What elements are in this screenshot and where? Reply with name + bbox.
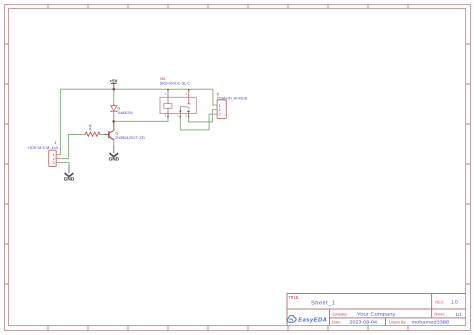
svg-text:3: 3 xyxy=(53,161,55,165)
J1 pin numbers 1 2 3 xyxy=(53,153,55,165)
svg-text:1N4007W: 1N4007W xyxy=(117,111,133,115)
wire J1 pin3 to ground xyxy=(60,163,69,167)
svg-text:Q1: Q1 xyxy=(115,131,118,135)
P1 pin numbers 1 2 3 xyxy=(219,104,221,117)
wire relay NO to P1 pin2 xyxy=(189,110,214,122)
svg-text:J1: J1 xyxy=(54,141,56,145)
svg-text:GND: GND xyxy=(109,157,120,162)
svg-text:REV:: REV: xyxy=(435,299,444,304)
svg-text:2: 2 xyxy=(219,108,221,112)
svg-text:1.0: 1.0 xyxy=(451,300,458,306)
wire +5V rail horizontal xyxy=(60,88,213,90)
frame zone ticks right xyxy=(466,44,471,284)
svg-text:Date:: Date: xyxy=(332,320,341,325)
svg-text:HDR-M-E.M_1x3: HDR-M-E.M_1x3 xyxy=(28,146,58,150)
EasyEDA logo xyxy=(287,315,327,323)
svg-text:Sheet_1: Sheet_1 xyxy=(311,300,335,307)
wire resistor to Q1 base xyxy=(100,134,104,136)
wire rail down to J1 pin1 xyxy=(59,89,62,154)
relay common pin xyxy=(179,107,181,117)
diode D1 1N4007W xyxy=(111,103,117,122)
svg-text:mohamed3388: mohamed3388 xyxy=(412,320,450,325)
relay coil box xyxy=(164,104,172,109)
wire +5V to diode top xyxy=(113,89,115,102)
ground symbol GND (under Q1) xyxy=(109,146,120,162)
svg-text:GND: GND xyxy=(64,177,75,182)
relay coil pin 1 (top) xyxy=(167,89,169,103)
svg-text:SRD-05VDC-SL-C: SRD-05VDC-SL-C xyxy=(160,81,191,85)
connector P1 CONN-TH_3P-P5.00 xyxy=(214,100,227,119)
junction at diode bottom / collector / coil wire xyxy=(113,120,116,123)
ground symbol GND (left, J1 pin3) xyxy=(64,166,75,182)
wire relay common to P1 pin3 xyxy=(180,114,213,130)
svg-text:1k: 1k xyxy=(89,127,92,131)
relay armature xyxy=(180,107,189,109)
wire J1 pin2 to resistor xyxy=(60,135,84,159)
relay coil pin 2 (bottom) xyxy=(167,108,169,117)
frame zone ticks top xyxy=(48,4,408,9)
wire rail to P1 pin1 xyxy=(212,89,215,105)
frame zone ticks left xyxy=(4,44,9,284)
transistor Q1 2N3904 xyxy=(104,122,114,141)
svg-text:1/1: 1/1 xyxy=(455,312,462,317)
relay RLY1 SRD-05VDC-SL-C xyxy=(160,89,196,117)
connector J1 HDR-M-E.M_1x3 xyxy=(49,150,60,166)
wire Q1 emitter down xyxy=(113,141,115,146)
svg-text:3: 3 xyxy=(219,113,221,117)
title block outline xyxy=(287,294,466,326)
relay pin junction dots xyxy=(180,111,182,113)
svg-text:Your Company: Your Company xyxy=(357,312,397,317)
svg-text:2N3904(SOT-23): 2N3904(SOT-23) xyxy=(115,136,146,140)
resistor R1 xyxy=(84,132,100,136)
power flag +5V xyxy=(110,79,118,90)
svg-text:2023-08-04: 2023-08-04 xyxy=(350,320,378,325)
relay NC contact pin (top) xyxy=(188,89,190,104)
svg-text:Company:: Company: xyxy=(332,312,348,317)
svg-text:+5V: +5V xyxy=(110,79,118,84)
svg-text:1: 1 xyxy=(219,104,221,108)
svg-text:Sheet:: Sheet: xyxy=(434,312,445,317)
junction at +5V rail / diode top xyxy=(113,88,116,91)
relay pin end caps xyxy=(167,89,168,90)
svg-text:CONN-TH_3P-P5.00: CONN-TH_3P-P5.00 xyxy=(217,96,248,100)
svg-text:Drawn By:: Drawn By: xyxy=(389,320,406,325)
relay NO contact pin (bottom) xyxy=(188,111,190,117)
svg-text:EasyEDA: EasyEDA xyxy=(298,318,327,324)
wire junction to relay coil bottom pin xyxy=(114,117,168,122)
svg-text:TITLE:: TITLE: xyxy=(289,295,300,300)
relay tiny pin numbers xyxy=(165,93,188,117)
frame zone ticks bottom xyxy=(48,326,408,331)
svg-text:D1: D1 xyxy=(117,106,120,110)
